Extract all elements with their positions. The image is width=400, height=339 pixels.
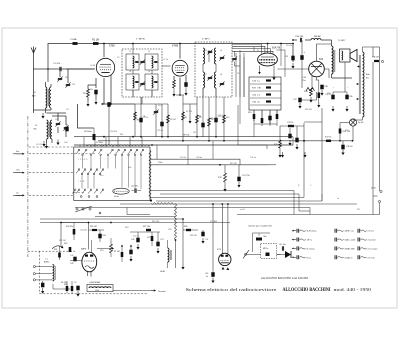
svg-text:C30: C30 (303, 77, 306, 79)
bus B+ (74, 136, 293, 138)
wire (150, 197, 304, 199)
capacitor C48 (211, 272, 214, 277)
svg-text:2.5 mute: 2.5 mute (368, 256, 375, 259)
svg-text:5200: 5200 (95, 290, 99, 292)
capacitor C34 (299, 38, 301, 42)
wire (135, 103, 168, 105)
svg-text:M/y: M/y (264, 236, 267, 238)
ground (57, 140, 59, 143)
svg-text:L3: L3 (35, 125, 38, 127)
svg-text:C37: C37 (293, 99, 298, 101)
svg-text:ATM/a: ATM/a (44, 261, 49, 264)
svg-text:R29: R29 (184, 226, 187, 228)
svg-text:ANT: ANT (32, 95, 36, 98)
wire (78, 104, 95, 128)
svg-text:C11: C11 (193, 132, 196, 134)
IF2 winding Lc (203, 72, 205, 88)
svg-text:Tr 5817: Tr 5817 (338, 39, 346, 42)
svg-text:2.5 mm: 2.5 mm (368, 231, 375, 233)
resistor R20 (318, 93, 321, 99)
speaker cone (350, 50, 357, 62)
trimmer C16 (140, 82, 144, 84)
wire (110, 88, 112, 104)
svg-text:C23: C23 (160, 239, 163, 241)
svg-text:C16: C16 (205, 273, 208, 275)
wire pin 4 (232, 49, 270, 54)
resistor R14b (261, 118, 264, 123)
svg-text:S1b: S1b (128, 167, 131, 169)
small switch S3 (76, 208, 78, 210)
svg-text:R12: R12 (218, 177, 223, 179)
inductor RF choke Z1 (311, 38, 321, 40)
wires box to bus (79, 145, 81, 147)
wire (280, 44, 282, 66)
svg-text:R21 1M: R21 1M (59, 240, 66, 242)
arrow (102, 103, 105, 105)
switch table S2 (249, 77, 281, 110)
svg-text:C44: C44 (102, 235, 105, 237)
wire (52, 284, 54, 289)
svg-text:R6 1M: R6 1M (170, 119, 176, 121)
bus heater1 (120, 203, 357, 205)
svg-text:R23: R23 (100, 250, 103, 252)
mech link dash-dot (27, 116, 29, 257)
svg-text:C10 2a: C10 2a (157, 130, 164, 132)
svg-text:C23 1k: C23 1k (287, 122, 293, 124)
svg-text:R25 1M: R25 1M (90, 226, 97, 228)
svg-text:220V: 220V (371, 188, 376, 190)
svg-text:C3a: C3a (55, 119, 59, 121)
wire (113, 290, 151, 292)
wire pin 3 (267, 44, 269, 54)
coil L3 (47, 120, 49, 139)
trimmer C41 (41, 283, 44, 288)
ground (273, 75, 275, 78)
wire (47, 112, 67, 114)
capacitor C22 (268, 116, 271, 121)
svg-text:C21 5a: C21 5a (250, 157, 257, 159)
svg-text:R12 1M: R12 1M (230, 163, 237, 165)
core L7 (359, 55, 361, 114)
svg-text:L6 AF: L6 AF (160, 270, 166, 273)
tap arrows (357, 83, 359, 85)
electrolytic C31 (291, 56, 294, 61)
svg-text:254AL c5: 254AL c5 (345, 256, 353, 259)
capacitor C37 (298, 98, 301, 103)
svg-text:C36 1M: C36 1M (372, 57, 379, 59)
wire cathode stub (273, 66, 275, 75)
wire (317, 44, 332, 61)
tube V6 5Y3 (219, 253, 231, 265)
capacitor blob (65, 127, 68, 132)
coil L4 (51, 120, 53, 139)
resistor R4 560 (93, 134, 96, 140)
band arrow Fm (16, 153, 25, 155)
resistor R27 (146, 229, 151, 231)
wire (284, 50, 286, 77)
wire (253, 110, 255, 121)
svg-text:SLM chiusa: SLM chiusa (307, 231, 318, 233)
svg-text:L1: L1 (34, 92, 37, 94)
svg-text:Fm: Fm (16, 151, 19, 153)
tube V3 6SA7 (258, 53, 278, 66)
ground (42, 113, 44, 116)
bus heater2 (75, 207, 310, 209)
wire (292, 44, 294, 63)
resistor R17 (326, 140, 331, 142)
svg-text:C44 10a: C44 10a (80, 230, 88, 232)
resistor R3b (173, 80, 176, 88)
svg-text:R6 13k: R6 13k (61, 282, 67, 284)
svg-text:JJF nu: JJF nu (307, 240, 313, 242)
svg-text:C38: C38 (324, 86, 329, 88)
wire (221, 204, 223, 254)
ground (189, 118, 191, 121)
svg-text:R8: R8 (199, 117, 201, 119)
wire (247, 254, 261, 256)
wire pin plate (103, 44, 105, 57)
svg-text:R24: R24 (125, 227, 128, 229)
svg-text:L5: L5 (205, 50, 207, 52)
legend row 2 (296, 238, 298, 242)
svg-text:P1 1M: P1 1M (114, 251, 120, 253)
svg-text:Oc: Oc (16, 192, 20, 194)
svg-text:C1 100: C1 100 (53, 63, 61, 65)
wire (277, 254, 285, 256)
svg-text:6SA7 M: 6SA7 M (272, 47, 280, 50)
svg-text:2° MF 5: 2° MF 5 (202, 39, 210, 41)
IF1 winding L3 (126, 74, 139, 90)
svg-text:Ls ANTENNA: Ls ANTENNA (89, 281, 101, 284)
wire (363, 47, 374, 52)
svg-text:C36: C36 (349, 96, 352, 98)
svg-text:C1 MA: C1 MA (70, 38, 77, 41)
svg-text:1° MF 80: 1° MF 80 (136, 39, 146, 41)
switch box S1 (74, 147, 150, 201)
svg-text:C18 47k: C18 47k (110, 131, 117, 133)
svg-text:1 2 3 4 5: 1 2 3 4 5 (78, 159, 87, 161)
svg-text:L8: L8 (220, 74, 222, 76)
svg-text:C21 750: C21 750 (242, 175, 250, 177)
arrow tornante (151, 290, 156, 292)
wire pin 1 (232, 44, 261, 53)
cathode arrows (222, 267, 225, 270)
wire (97, 248, 111, 250)
mains plug (380, 190, 382, 192)
choke L7 (363, 52, 365, 117)
wire (280, 125, 304, 127)
svg-text:R4 560a: R4 560a (84, 131, 92, 133)
svg-text:+: + (304, 51, 306, 54)
capacitor C39 (341, 145, 344, 150)
capacitor C7 (107, 102, 110, 107)
ground (46, 143, 48, 146)
legend row 4 (296, 255, 298, 259)
svg-text:C4a: C4a (64, 142, 68, 144)
svg-text:R27: R27 (147, 237, 150, 239)
svg-text:I II III: I II III (78, 181, 85, 183)
svg-text:RF 12k: RF 12k (183, 134, 189, 136)
core T3 (333, 50, 335, 72)
resistor R16 (310, 88, 313, 96)
band arrow Om (16, 172, 25, 174)
svg-text:ALLOCCHIO BACCHINI mod 440-950: ALLOCCHIO BACCHINI mod 440-950 (261, 277, 309, 280)
svg-text:+: + (347, 87, 349, 89)
resistor R29 (186, 229, 191, 231)
wire pin 5 (232, 51, 273, 53)
resistor R8 (196, 97, 198, 137)
capacitor C24 (288, 134, 291, 139)
bus AVC (98, 140, 304, 142)
tube V5 6AF6 (82, 252, 97, 272)
resistor R28 (151, 236, 154, 241)
capacitor C17 (134, 189, 136, 193)
capacitor C1 (59, 67, 61, 71)
wire (239, 50, 241, 97)
wire (309, 208, 311, 215)
NTC box (261, 244, 277, 259)
svg-text:OSC: OSC (33, 129, 38, 131)
wire (321, 108, 323, 122)
svg-text:C4 50: C4 50 (90, 65, 95, 67)
wire (179, 44, 181, 59)
svg-text:R16 47k: R16 47k (305, 109, 312, 111)
switch row A (78, 149, 80, 151)
svg-text:Scala: Scala (114, 196, 120, 198)
svg-text:ALLOCCHIO BACCHINI: ALLOCCHIO BACCHINI (283, 288, 331, 293)
switch inner wires (82, 156, 84, 169)
svg-text:6TM8: 6TM8 (172, 45, 179, 48)
svg-text:25a: 25a (303, 80, 307, 82)
core L1L2 (47, 89, 49, 106)
tube V2 6TM8 (172, 60, 188, 76)
wire (88, 223, 90, 250)
svg-text:R16: R16 (304, 91, 309, 93)
coil L6 AF (168, 248, 170, 262)
wire (202, 64, 204, 72)
svg-text:L2: L2 (129, 51, 131, 53)
diode arrow (285, 251, 291, 258)
wire (182, 219, 184, 264)
svg-text:C22 1a: C22 1a (133, 236, 140, 238)
svg-text:mod. 440 - 1950: mod. 440 - 1950 (334, 287, 372, 292)
svg-text:C34 250: C34 250 (295, 36, 304, 38)
capacitor C11 (202, 97, 204, 137)
svg-text:se: se (337, 198, 339, 200)
dashed line (74, 153, 95, 155)
svg-text:2.5 creativa: 2.5 creativa (368, 247, 379, 250)
junction dots (132, 136, 134, 138)
capacitor C43 (129, 250, 132, 255)
svg-text:Sp 6V: Sp 6V (358, 122, 364, 124)
resistor R10 (223, 97, 225, 141)
svg-text:6TE8: 6TE8 (109, 45, 115, 48)
resistor R6 13k (66, 286, 69, 291)
resistor R4b (73, 229, 76, 235)
capacitor C12 (215, 97, 217, 137)
resistor R5 (134, 104, 136, 137)
svg-text:valevole per il modello 500: valevole per il modello 500 (248, 226, 273, 228)
wire (132, 70, 134, 74)
chassis dash border (28, 250, 75, 252)
capacitor C47 (281, 246, 283, 250)
capacitor C47b (201, 232, 204, 237)
svg-text:C19 1a: C19 1a (180, 157, 187, 159)
wire (150, 159, 268, 165)
svg-text:R19: R19 (345, 130, 348, 132)
resistor R12 (224, 173, 227, 182)
capacitor C9b (76, 286, 79, 291)
IF1 winding L2 (145, 54, 158, 70)
wire (61, 222, 89, 224)
svg-text:R24 47k: R24 47k (66, 226, 73, 228)
svg-text:C7 1a: C7 1a (163, 59, 169, 61)
IF transformer T2 box (195, 42, 232, 97)
cathode marks (306, 88, 310, 92)
capacitor C7b (184, 82, 187, 87)
wire (156, 145, 158, 159)
capacitor C8 (140, 97, 142, 137)
svg-text:C12 5a: C12 5a (218, 115, 225, 117)
wire (34, 68, 96, 70)
svg-text:C26 L4: C26 L4 (252, 95, 260, 97)
svg-text:6V6: 6V6 (319, 59, 324, 61)
svg-text:C28: C28 (168, 229, 171, 231)
trimmer C2 (58, 77, 62, 79)
electrolytic C30 (300, 55, 303, 60)
resistor R19 (339, 129, 342, 134)
ground (87, 101, 89, 104)
svg-text:5a: 5a (206, 276, 208, 278)
wire (278, 68, 309, 70)
wire (132, 44, 134, 54)
svg-text:53AL c oohd: 53AL c oohd (345, 239, 356, 242)
wire (331, 74, 333, 78)
wire (253, 47, 255, 52)
svg-text:C5: C5 (117, 57, 119, 59)
wire (156, 194, 322, 201)
svg-text:R7 47k: R7 47k (186, 111, 192, 113)
coil L2 (50, 87, 52, 108)
trimmer C15 (140, 60, 144, 62)
svg-text:C9 5: C9 5 (158, 105, 162, 107)
switch S4 (245, 253, 247, 255)
svg-text:6AF6: 6AF6 (81, 248, 87, 251)
svg-text:R10 10k: R10 10k (152, 221, 159, 223)
IF2 winding La (203, 48, 205, 64)
wire (372, 47, 374, 57)
svg-text:OC: OC (66, 109, 69, 111)
svg-text:R22: R22 (64, 243, 67, 245)
svg-text:se 50: se 50 (240, 209, 245, 211)
capacitor C10 (161, 104, 163, 137)
wire (173, 76, 175, 80)
svg-text:Ecc: Ecc (366, 78, 369, 80)
dial scale (113, 188, 129, 194)
wire (237, 214, 380, 216)
svg-text:L7: L7 (205, 74, 207, 76)
resistor R23 (121, 252, 124, 257)
svg-text:C14 1a: C14 1a (286, 45, 293, 47)
wire (212, 204, 214, 272)
junction (179, 94, 181, 96)
capacitor C35 (331, 95, 334, 100)
capacitor C6 (94, 90, 97, 95)
capacitor C44 (98, 234, 101, 239)
svg-text:R10: R10 (226, 117, 229, 119)
tube V4 6V6 (309, 61, 325, 77)
trimmer C5 (64, 126, 68, 128)
wire (316, 92, 318, 100)
wire (372, 62, 374, 215)
transformer T3 primary (332, 46, 334, 74)
capacitor C25 (295, 138, 298, 143)
wire (130, 231, 160, 233)
svg-text:L4: L4 (129, 71, 131, 73)
wire (292, 137, 294, 145)
wire (151, 90, 153, 97)
wire (344, 62, 346, 92)
switch row C (74, 189, 76, 191)
tube V1 6TE8 (96, 58, 114, 76)
wire (303, 123, 305, 141)
capacitor C21 (237, 177, 240, 182)
wire (34, 109, 52, 111)
svg-text:R: R (298, 185, 300, 187)
svg-text:R4 560a: R4 560a (96, 142, 104, 144)
svg-text:C3: C3 (72, 84, 75, 86)
svg-text:C20 4a: C20 4a (196, 157, 203, 159)
wire (321, 194, 323, 201)
svg-text:R7: R7 (185, 117, 187, 119)
volume pot P1 (110, 244, 113, 253)
svg-text:R13: R13 (248, 112, 251, 114)
svg-text:L2 OSC: L2 OSC (36, 144, 43, 146)
svg-text:R1 1M: R1 1M (92, 39, 99, 42)
switch row B (78, 169, 80, 171)
core T2a (208, 50, 210, 62)
trimmer C3 (66, 83, 70, 85)
svg-text:Schema elettrico del radiorice: Schema elettrico del radioricevitore (186, 288, 278, 292)
wire (46, 139, 48, 143)
antenna A1 (31, 47, 36, 54)
wire (304, 140, 326, 142)
svg-text:C8 1a: C8 1a (143, 117, 149, 119)
junction dots 2 (221, 203, 223, 205)
wire corner (293, 191, 295, 215)
trimmer C9 (155, 104, 157, 137)
svg-text:R17 736: R17 736 (252, 88, 262, 90)
svg-text:R17 1k: R17 1k (325, 137, 331, 139)
resistor R1 (93, 42, 99, 45)
svg-text:C38 5a: C38 5a (325, 94, 332, 96)
resistor R21 (58, 253, 61, 258)
IF2 winding Ld (215, 72, 217, 88)
wire (346, 91, 348, 93)
wire (59, 71, 61, 77)
legend row 3 (296, 246, 298, 250)
wire grid stub (259, 66, 261, 73)
svg-text:R9 22k: R9 22k (211, 119, 217, 121)
capacitor C42 (73, 257, 76, 262)
svg-text:5Y3: 5Y3 (217, 249, 222, 251)
bus screen (74, 144, 293, 146)
wire pin 2 (232, 46, 265, 53)
svg-text:R27 10k: R27 10k (143, 226, 150, 228)
svg-text:R11: R11 (120, 134, 123, 136)
coil box 5200 (87, 285, 113, 292)
wire (95, 78, 97, 88)
